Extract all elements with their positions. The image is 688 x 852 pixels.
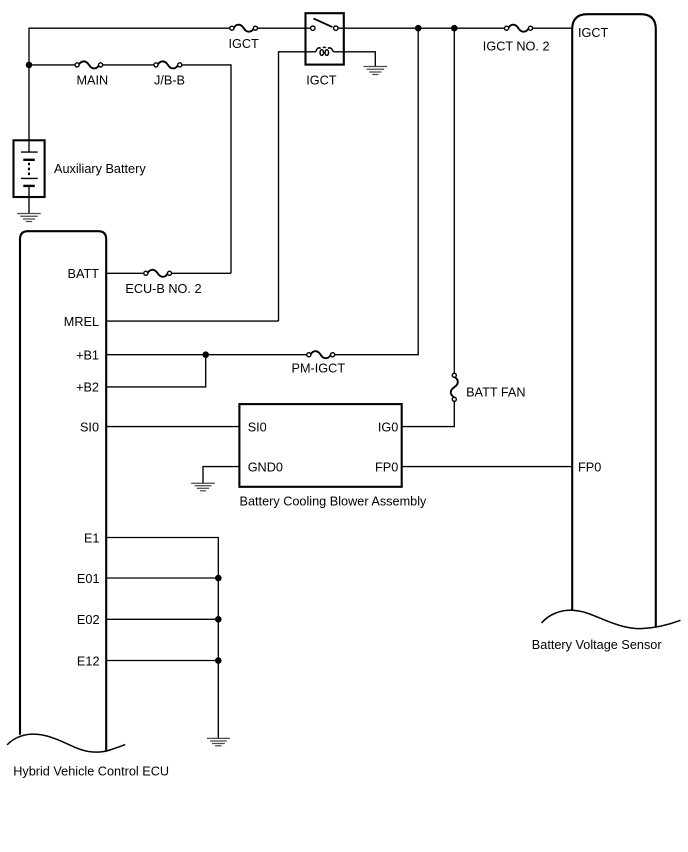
ground relay coil	[364, 67, 388, 75]
wire IG0 riser through fuse BATT FAN to top bus	[402, 28, 455, 426]
wire fuse IGCT to relay switch contact	[258, 27, 311, 29]
battery Auxiliary Battery	[14, 140, 45, 197]
wire E1 to ground riser	[106, 538, 218, 739]
wire E02	[106, 618, 218, 620]
svg-text:IGCT NO. 2: IGCT NO. 2	[483, 39, 550, 53]
fuse IGCT	[230, 25, 258, 32]
svg-text:PM-IGCT: PM-IGCT	[292, 362, 346, 376]
fuse J/B-B	[154, 61, 182, 68]
box Hybrid Vehicle Control ECU	[20, 231, 106, 750]
svg-text:FP0: FP0	[375, 460, 398, 474]
svg-text:E12: E12	[77, 654, 100, 668]
wire fuse IGCT NO. 2 to sensor pin IGCT	[533, 27, 573, 29]
wire FP0 blower to sensor	[402, 466, 573, 468]
wire relay switch output to sensor	[338, 27, 505, 29]
wire fuse MAIN to fuse J/B-B	[103, 64, 154, 66]
svg-text:IGCT: IGCT	[578, 26, 609, 40]
svg-text:SI0: SI0	[80, 420, 99, 434]
ground battery	[17, 214, 41, 222]
node E01 junction	[215, 575, 222, 582]
svg-text:Auxiliary Battery: Auxiliary Battery	[54, 162, 146, 176]
svg-text:+B2: +B2	[76, 381, 99, 395]
wire MREL	[106, 320, 278, 322]
svg-text:IG0: IG0	[378, 420, 398, 434]
wire top bus from battery riser to fuse IGCT	[29, 27, 230, 29]
svg-text:E01: E01	[77, 572, 100, 586]
node battery / MAIN bus junction	[26, 62, 33, 69]
wavy sensor bottom tear	[542, 610, 681, 628]
node E12 junction	[215, 657, 222, 664]
svg-text:ECU-B NO. 2: ECU-B NO. 2	[125, 282, 201, 296]
fuse MAIN	[75, 61, 103, 68]
svg-text:MREL: MREL	[64, 315, 99, 329]
wire MREL riser to relay coil	[279, 51, 316, 321]
svg-text:FP0: FP0	[578, 460, 601, 474]
wavy ECU bottom tear	[7, 734, 125, 752]
svg-text:Battery Voltage Sensor: Battery Voltage Sensor	[532, 638, 663, 652]
svg-text:BATT FAN: BATT FAN	[466, 386, 525, 400]
node +B1 riser on top bus	[415, 25, 422, 32]
ground E pins	[207, 738, 230, 745]
wire battery riser	[28, 28, 30, 153]
fuse BATT FAN	[451, 373, 458, 401]
wire E01	[106, 577, 218, 579]
svg-text:E02: E02	[77, 613, 100, 627]
wire battery to fuse MAIN	[29, 64, 75, 66]
wire +B1 to fuse PM-IGCT	[106, 354, 307, 356]
fuse PM-IGCT	[307, 351, 335, 358]
svg-text:IGCT: IGCT	[228, 37, 259, 51]
node IG0 riser on top bus	[451, 25, 458, 32]
box Battery Voltage Sensor	[572, 14, 656, 627]
svg-text:GND0: GND0	[248, 460, 283, 474]
svg-text:J/B-B: J/B-B	[154, 74, 185, 88]
wire GND0 to ground	[203, 467, 239, 483]
wire battery negative to ground	[28, 186, 30, 213]
svg-text:+B1: +B1	[76, 349, 99, 363]
node E02 junction	[215, 616, 222, 623]
svg-text:SI0: SI0	[248, 420, 267, 434]
svg-text:E1: E1	[84, 531, 100, 545]
wire fuse PM-IGCT to top bus riser	[335, 28, 419, 355]
wire E12	[106, 660, 218, 662]
wire SI0 ECU to blower	[106, 426, 239, 428]
svg-text:Hybrid Vehicle Control ECU: Hybrid Vehicle Control ECU	[13, 765, 169, 779]
node +B1/+B2 junction	[202, 351, 209, 358]
svg-text:MAIN: MAIN	[76, 74, 108, 88]
svg-text:Battery Cooling Blower Assembl: Battery Cooling Blower Assembly	[240, 494, 428, 508]
fuse ECU-B NO. 2	[144, 270, 172, 277]
svg-text:BATT: BATT	[68, 267, 100, 281]
wire +B2 up to +B1 junction	[106, 355, 206, 387]
box Battery Cooling Blower Assembly	[239, 404, 401, 487]
ground GND0	[191, 483, 215, 491]
wire relay coil to ground drop	[333, 52, 375, 66]
relay IGCT	[306, 13, 344, 64]
wire BATT to fuse ECU-B NO. 2	[106, 272, 144, 274]
wire fuse J/B-B down to BATT pin wire	[182, 65, 231, 273]
fuse IGCT NO. 2	[505, 25, 533, 32]
svg-text:IGCT: IGCT	[306, 74, 337, 88]
wire fuse ECU-B NO. 2 to J/B-B riser	[172, 272, 231, 274]
